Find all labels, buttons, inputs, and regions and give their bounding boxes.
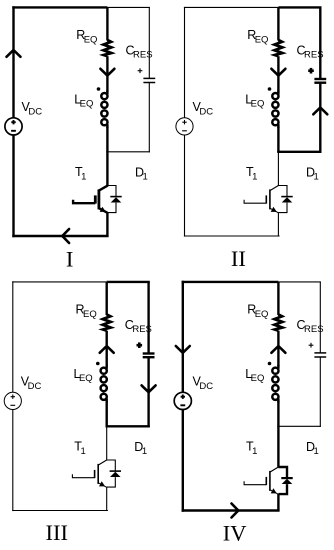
panel IV: wire right branch upper <box>319 282 321 353</box>
panel II: wire collector segment <box>277 152 279 186</box>
panel IV: wire middle branch between resistor and inductor <box>277 331 279 367</box>
svg-text:II: II <box>231 246 246 271</box>
panel III: wire connector middle-right <box>106 425 150 427</box>
panel IV: wire emitter segment <box>277 494 279 510</box>
panel III: wire right branch upper <box>147 282 149 353</box>
svg-text:III: III <box>46 520 68 545</box>
panel IV: diode D1 loop wire upper <box>278 467 287 478</box>
panel IV: diode D1 triangle <box>282 479 293 484</box>
panel II: wire middle branch upper <box>277 7 279 40</box>
panel IV: diode D1 cathode bar <box>281 477 292 479</box>
panel II: diode D1 loop wire upper <box>278 186 287 197</box>
panel II: wire connector middle-right <box>277 151 321 153</box>
panel I: wire emitter segment <box>106 213 108 236</box>
panel II: wire left lower segment <box>184 135 186 237</box>
panel IV: source minus mark <box>180 404 185 406</box>
panel IV: source plus mark <box>181 396 185 398</box>
panel IV: wire right branch lower <box>319 357 321 427</box>
panel IV: wire top-left segment <box>182 281 279 283</box>
panel II: wire bottom segment <box>184 235 280 237</box>
panel II: wire top-left segment <box>184 6 279 8</box>
panel II: source minus mark <box>182 130 187 132</box>
panel III: capacitor plus polarity mark <box>137 344 143 347</box>
panel III: source plus mark <box>11 396 15 398</box>
svg-text:VDC: VDC <box>193 375 214 392</box>
panel I: current arrow bottom wire (left) <box>62 229 69 243</box>
panel I: current arrow left wire (up) <box>7 50 21 57</box>
svg-text:CRES: CRES <box>126 44 153 61</box>
panel III: wire middle branch between resistor and inductor <box>105 331 107 367</box>
panel III: wire top-left segment <box>12 281 107 283</box>
panel IV: current arrow middle branch (up) <box>271 346 285 353</box>
panel IV: current arrow left wire (down) <box>176 346 190 353</box>
panel III: diode D1 cathode bar <box>110 470 121 472</box>
panel IV: wire collector segment <box>277 426 279 467</box>
panel IV: wire middle branch below inductor <box>277 401 279 426</box>
panel I: diode D1 cathode bar <box>110 196 121 198</box>
panel III: wire bottom segment <box>12 510 108 512</box>
panel I: source minus mark <box>11 130 16 132</box>
panel II: wire left upper segment <box>184 7 186 118</box>
panel I: wire right branch lower <box>148 83 150 153</box>
panel II: current arrow middle branch (down) <box>271 69 285 76</box>
panel IV: resistor REQ <box>275 315 283 331</box>
svg-text:IV: IV <box>223 521 247 546</box>
panel I: capacitor CRES <box>143 77 155 79</box>
panel II: resistor REQ <box>275 40 283 56</box>
panel III: inductor LEQ <box>101 365 107 403</box>
panel IV: capacitor plus polarity mark <box>309 344 314 346</box>
panel II: transistor T1 (IGBT) <box>244 185 279 212</box>
panel I: wire connector middle-right <box>106 151 150 153</box>
panel III: wire middle branch upper <box>105 282 107 315</box>
panel III: wire middle branch below inductor <box>105 401 107 426</box>
panel IV: wire left lower segment <box>182 410 184 512</box>
svg-text:D1: D1 <box>134 440 147 457</box>
panel II: polarity dot near LEQ <box>268 87 272 91</box>
panel IV: wire left upper segment <box>182 281 184 393</box>
svg-text:D1: D1 <box>306 440 319 457</box>
panel I: wire middle branch between resistor and inductor <box>106 56 108 92</box>
panel I: source plus mark <box>11 121 15 123</box>
panel III: wire top-right segment <box>107 281 150 283</box>
panel I: diode D1 triangle <box>111 197 122 202</box>
panel II: wire right branch lower <box>319 83 321 154</box>
svg-text:VDC: VDC <box>21 375 42 392</box>
panel III: wire left upper segment <box>12 281 14 392</box>
panel III: capacitor CRES <box>143 352 155 354</box>
panel I: wire middle branch upper <box>106 7 108 40</box>
panel I: diode D1 loop wire upper <box>107 186 116 197</box>
panel II: voltage source VDC circle <box>176 118 193 135</box>
panel IV: wire middle branch upper <box>277 282 279 315</box>
panel III: wire left lower segment <box>12 410 14 512</box>
panel I: resistor REQ <box>104 40 112 56</box>
panel III: voltage source VDC circle <box>4 392 21 409</box>
panel I: wire left upper segment <box>12 6 14 118</box>
svg-text:REQ: REQ <box>247 303 268 320</box>
panel III: resistor REQ <box>103 315 111 331</box>
svg-text:LEQ: LEQ <box>74 92 93 109</box>
panel II: capacitor CRES <box>314 78 326 80</box>
panel III: wire right branch lower <box>147 357 149 428</box>
panel III: current arrow middle branch (up) <box>100 346 114 353</box>
panel I: transistor T1 (IGBT) <box>73 185 108 212</box>
panel III: current arrow right branch (down) <box>142 385 156 392</box>
panel II: wire middle branch between resistor and inductor <box>277 56 279 92</box>
svg-text:T1: T1 <box>246 165 257 182</box>
panel IV: polarity dot near LEQ <box>268 362 272 366</box>
panel I: wire top-right segment <box>107 6 149 8</box>
panel IV: wire bottom segment <box>182 509 280 511</box>
panel II: wire middle branch below inductor <box>277 127 279 152</box>
panel I: current arrow middle branch (down) <box>100 69 114 76</box>
panel IV: diode D1 loop wire lower <box>278 484 287 494</box>
panel II: diode D1 loop wire lower <box>278 203 287 213</box>
panel II: wire top-right segment <box>278 6 321 8</box>
panel III: transistor T1 (IGBT) <box>72 460 107 487</box>
panel II: inductor LEQ <box>272 90 278 128</box>
panel IV: transistor T1 (IGBT) <box>244 467 279 494</box>
svg-text:I: I <box>66 247 74 272</box>
panel IV: voltage source VDC circle <box>174 392 191 409</box>
panel II: diode D1 cathode bar <box>281 196 292 198</box>
svg-text:T1: T1 <box>74 440 85 457</box>
panel I: wire middle branch below inductor <box>106 127 108 152</box>
panel I: inductor LEQ <box>101 90 107 128</box>
panel III: polarity dot near LEQ <box>96 362 100 366</box>
panel II: current arrow right branch (up) <box>313 108 327 115</box>
svg-text:T1: T1 <box>75 165 86 182</box>
svg-text:D1: D1 <box>135 165 148 182</box>
svg-text:REQ: REQ <box>76 303 97 320</box>
panel I: polarity dot near LEQ <box>97 87 101 91</box>
panel I: wire collector segment <box>106 152 108 186</box>
panel I: wire right branch upper <box>148 7 150 78</box>
panel III: wire collector segment <box>106 426 108 460</box>
panel IV: wire connector middle-right <box>277 425 321 427</box>
panel I: capacitor plus polarity mark <box>138 70 143 72</box>
panel IV: inductor LEQ <box>272 365 278 403</box>
panel I: wire bottom segment <box>12 235 108 237</box>
svg-text:D1: D1 <box>306 165 319 182</box>
svg-text:REQ: REQ <box>76 28 97 45</box>
panel III: wire emitter segment <box>106 487 108 510</box>
svg-text:LEQ: LEQ <box>74 367 93 384</box>
panel II: capacitor plus polarity mark <box>308 69 314 72</box>
svg-text:LEQ: LEQ <box>245 367 264 384</box>
panel III: diode D1 triangle <box>110 472 121 477</box>
panel II: diode D1 triangle <box>282 197 293 202</box>
panel I: voltage source VDC circle <box>5 118 22 135</box>
panel II: wire emitter segment <box>277 213 279 236</box>
panel II: wire right branch upper <box>319 7 321 78</box>
svg-text:VDC: VDC <box>193 100 214 117</box>
svg-text:T1: T1 <box>246 440 257 457</box>
panel IV: wire top-right segment <box>278 281 321 283</box>
svg-text:VDC: VDC <box>22 100 43 117</box>
panel III: diode D1 loop wire upper <box>107 460 116 471</box>
svg-text:LEQ: LEQ <box>245 92 264 109</box>
panel III: source minus mark <box>10 404 15 406</box>
panel I: wire left lower segment <box>12 135 14 237</box>
panel IV: current arrow bottom wire (right) <box>232 504 239 518</box>
svg-text:CRES: CRES <box>297 318 324 335</box>
panel I: diode D1 loop wire lower <box>107 203 116 213</box>
svg-text:REQ: REQ <box>247 28 268 45</box>
panel II: source plus mark <box>182 121 186 123</box>
panel III: diode D1 loop wire lower <box>107 477 116 487</box>
panel I: wire top-left segment <box>12 6 107 8</box>
panel IV: capacitor CRES <box>314 352 326 354</box>
